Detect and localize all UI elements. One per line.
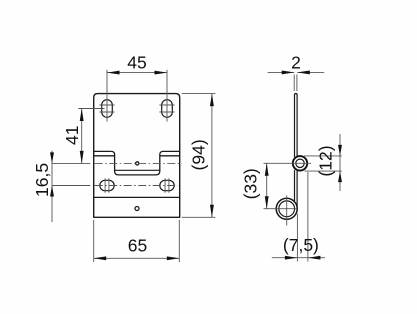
front view bracket outline [94, 94, 180, 218]
curl vertical centerline [286, 196, 288, 226]
side view upper leaf plate [295, 94, 298, 158]
top-left slotted hole [102, 100, 113, 118]
dimension (12) bottom arrow [338, 171, 342, 182]
dimension 2 left arrow [282, 70, 295, 74]
svg-text:(33): (33) [240, 168, 260, 199]
dimension 45 left arrow [107, 71, 120, 75]
dimension (94) top arrow [210, 94, 214, 107]
side view lower leaf plate [295, 170, 298, 206]
dimension (7,5) left arrow [285, 256, 298, 260]
41 extension line from slot [78, 108, 104, 110]
hinge pin small circle front view [136, 162, 139, 165]
svg-text:(7,5): (7,5) [283, 235, 319, 255]
top leaf bottom edge left segment [94, 150, 112, 152]
svg-text:16,5: 16,5 [32, 163, 52, 197]
svg-text:45: 45 [127, 53, 146, 73]
dimension 2 line left segment [268, 71, 295, 73]
dimension (12) line [339, 134, 341, 191]
(12) top extension line [304, 155, 342, 157]
bottom leaf top edge right segment [160, 155, 180, 157]
(94) top extension line [182, 93, 216, 95]
dimension 45 line [107, 72, 167, 74]
knuckle inner circle side view [296, 159, 304, 167]
svg-text:(94): (94) [188, 139, 208, 170]
top-right slot arc-center horizontals [159, 105, 174, 112]
top-left slot vertical centerline / 45 extension [106, 70, 108, 122]
dimension 41 top arrow [80, 109, 84, 122]
top leaf bottom edge right segment [163, 150, 180, 152]
dimension 41 line [81, 109, 83, 164]
dimension (7,5) right arrow [308, 256, 321, 260]
bottom slot centerline front view [52, 185, 90, 187]
bottom-left slotted hole [100, 180, 114, 190]
dimension (94) bottom arrow [210, 205, 214, 218]
knuckle horizontal centerline / (33) top extension [264, 162, 312, 164]
dimension (33) top arrow [265, 163, 269, 176]
bottom-left slot vertical arc-center marks [105, 178, 109, 193]
dimension 65 right arrow [167, 256, 180, 260]
dimension (33) line [266, 163, 268, 208]
hinge channel outline [112, 151, 163, 175]
dimension (12) top arrow [338, 145, 342, 156]
dimension 45 right arrow [155, 71, 168, 75]
bend/divider line [94, 196, 180, 198]
svg-text:(12): (12) [316, 145, 336, 176]
svg-text:41: 41 [62, 125, 82, 144]
65 right extension line [178, 220, 180, 262]
(7,5) right extension line [307, 172, 309, 262]
svg-text:2: 2 [291, 53, 301, 73]
top-right slotted hole [162, 100, 173, 118]
dimension (7,5) line [272, 257, 325, 259]
curl outer circle side view [276, 198, 297, 219]
dimension 16,5 top arrow [50, 152, 54, 163]
dimension 16,5 line [51, 151, 53, 223]
curl inner circle side view [279, 201, 295, 217]
(7,5) left extension line [296, 214, 298, 262]
top-left slot arc-center horizontals [99, 105, 114, 112]
dimension 16,5 bottom arrow [50, 186, 54, 197]
svg-text:65: 65 [128, 236, 147, 256]
curl horizontal centerline / (33) bottom extension [264, 208, 298, 210]
(12) bottom extension line [305, 170, 342, 172]
hinge axis centerline front view [52, 162, 90, 164]
bottom leaf top edge left segment [94, 155, 115, 157]
dimension 2 right arrow [297, 70, 310, 74]
dimension 65 line [94, 257, 180, 259]
(94) bottom extension line [182, 216, 216, 218]
bottom-right slotted hole [160, 180, 174, 190]
65 left extension line [93, 220, 95, 262]
dimension 2 extension lines [294, 75, 297, 92]
dimension (33) bottom arrow [265, 196, 269, 209]
knuckle outer circle side view [293, 156, 307, 170]
bottom-right slot vertical arc-center marks [165, 178, 169, 193]
top-right slot vertical centerline / 45 extension [166, 70, 168, 122]
dimension (94) line [211, 94, 213, 218]
dimension 41 bottom arrow [80, 151, 84, 164]
small hole bottom plate front view [135, 207, 139, 211]
dimension 2 line right segment [297, 71, 324, 73]
hinge channel inner bottom line [115, 169, 160, 171]
dimension 65 left arrow [94, 256, 107, 260]
